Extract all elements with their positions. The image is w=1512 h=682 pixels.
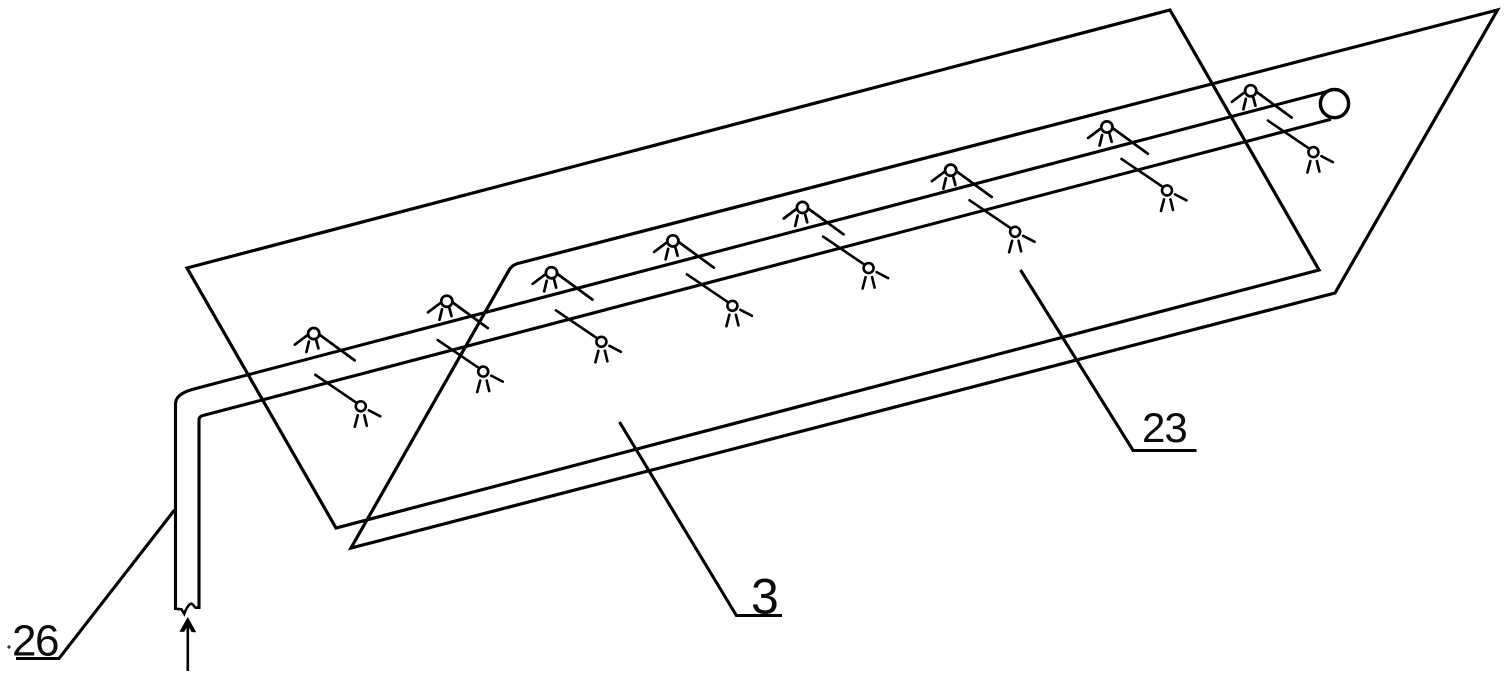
svg-text:26: 26 bbox=[12, 617, 58, 666]
svg-text:3: 3 bbox=[751, 569, 779, 625]
svg-text:23: 23 bbox=[1142, 404, 1187, 451]
